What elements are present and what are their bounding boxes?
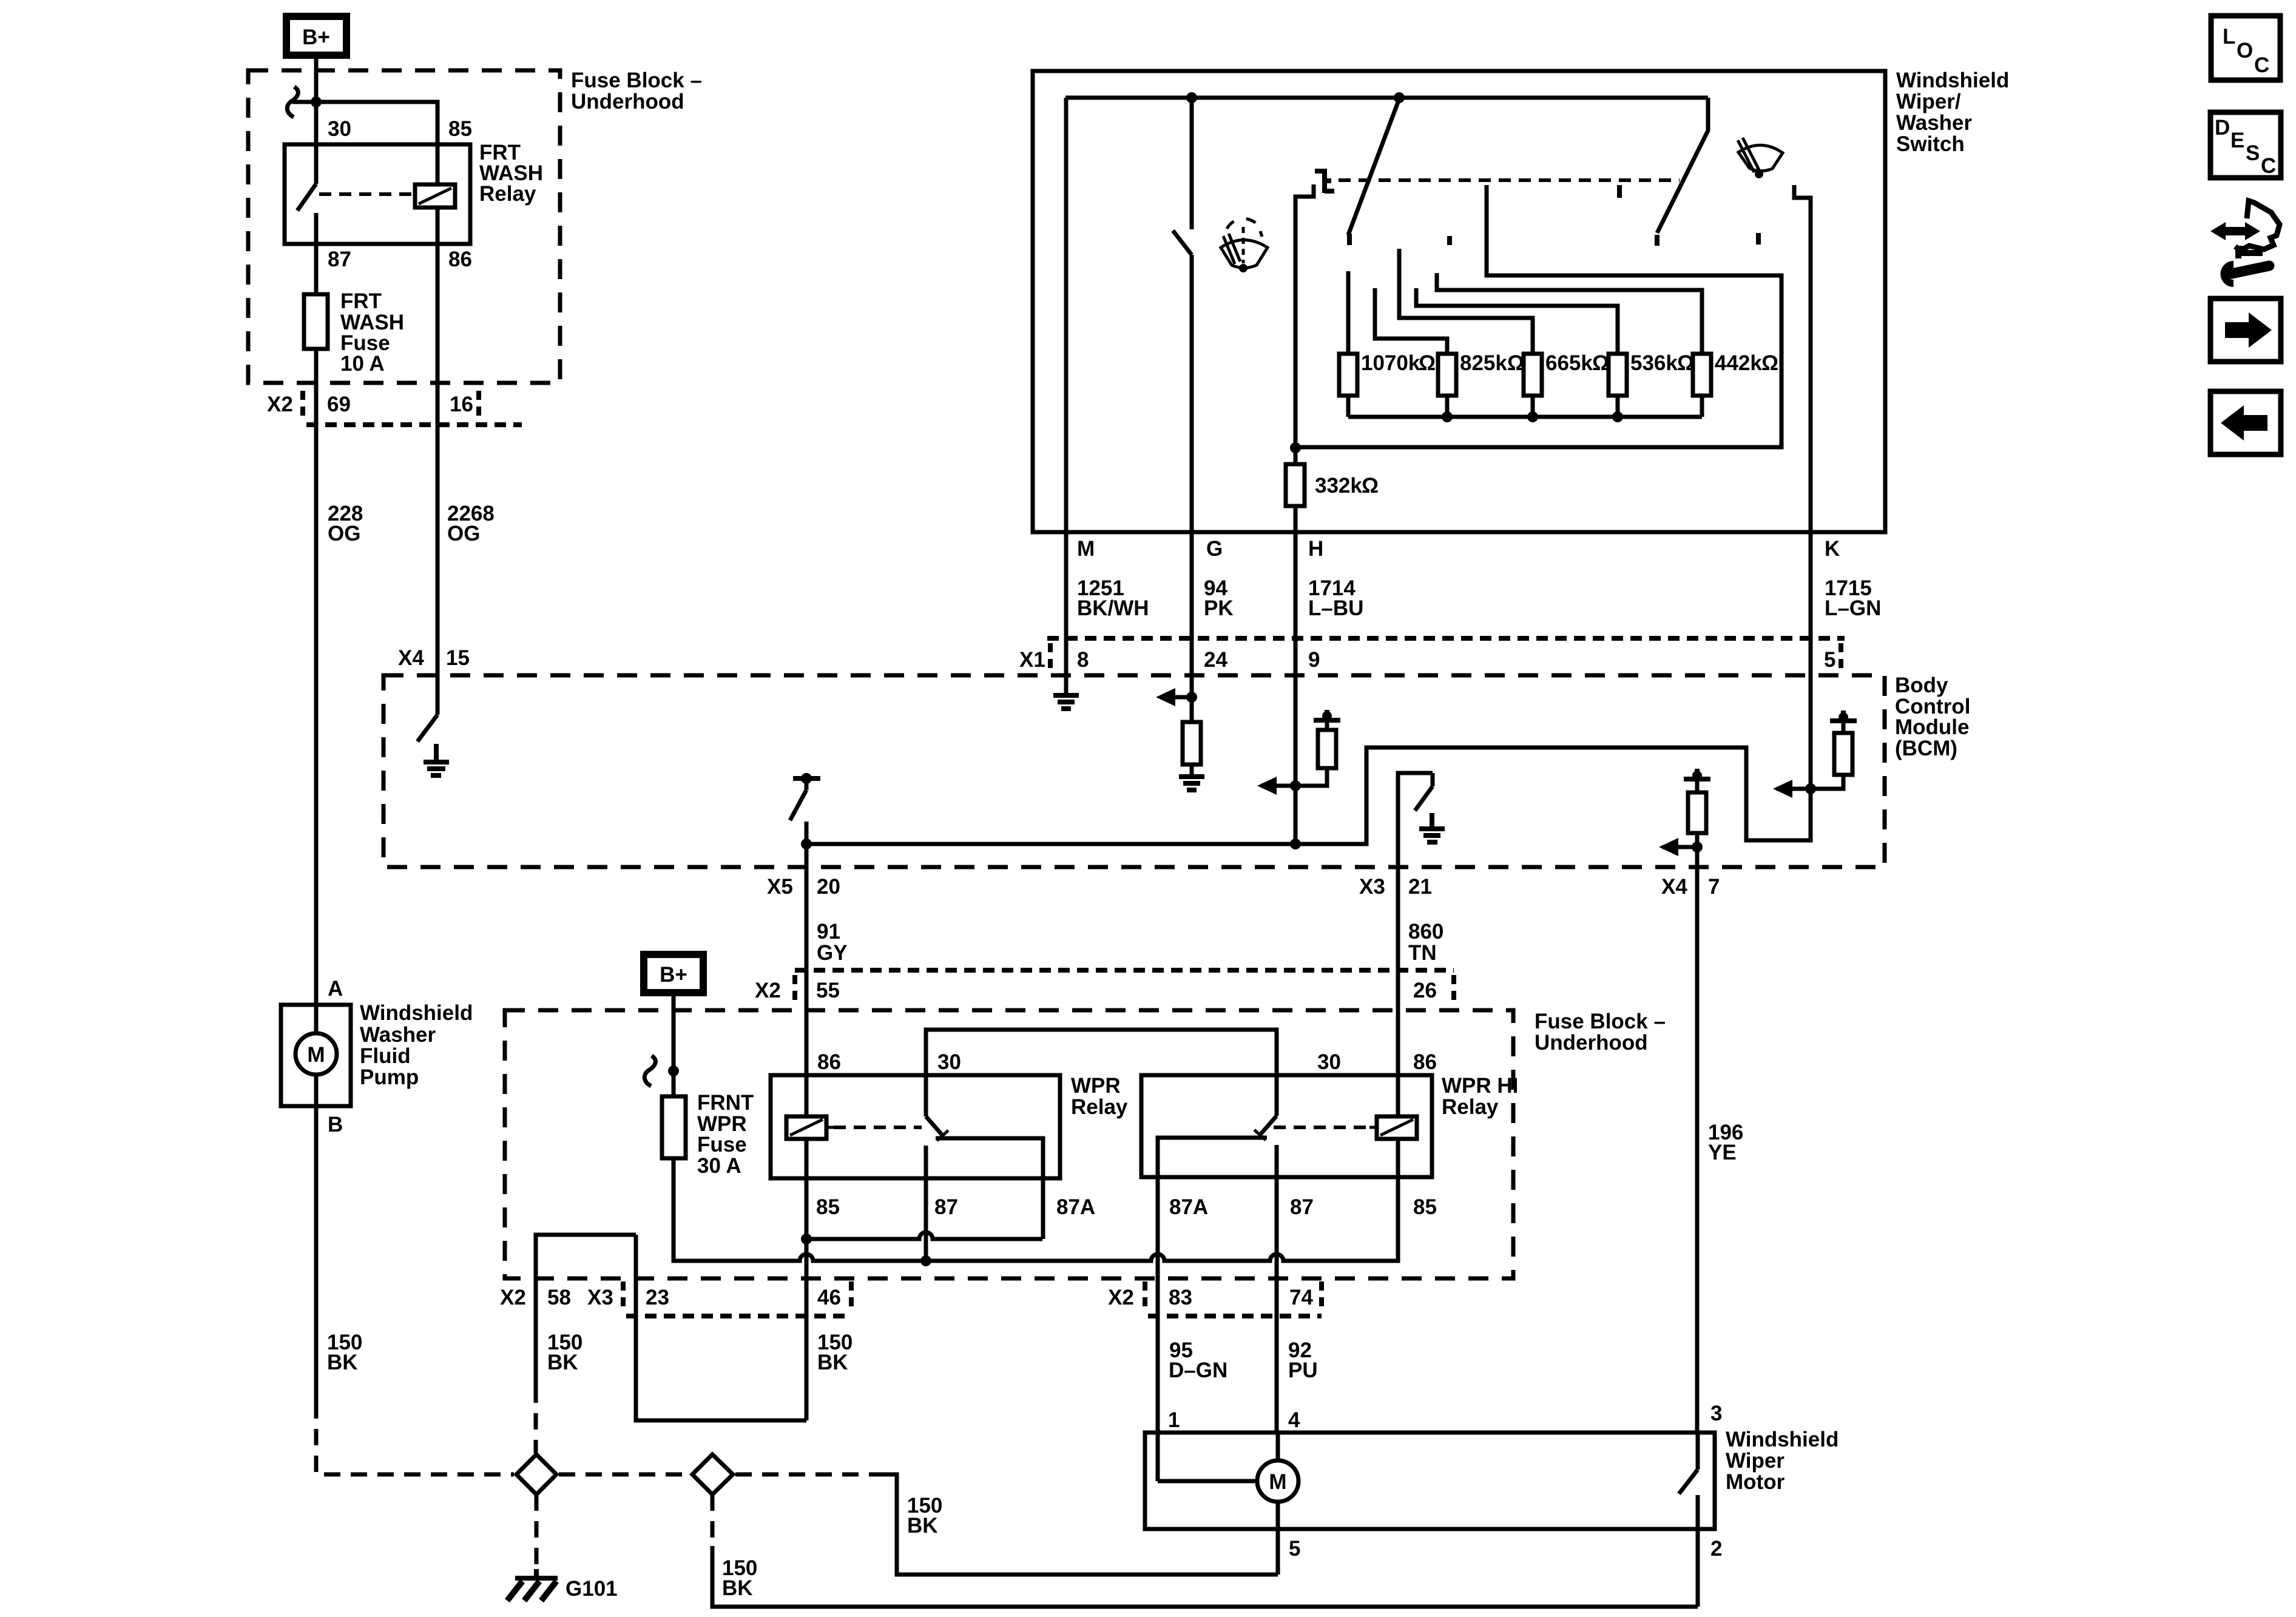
svg-text:H: H (1308, 537, 1323, 561)
node: B+ junction dot (311, 96, 322, 107)
dashed wire S1-S2 (559, 1473, 690, 1477)
svg-text:30: 30 (1317, 1050, 1341, 1074)
svg-text:X1: X1 (1019, 648, 1045, 672)
wire 58 dashed to splice S1 (534, 1386, 538, 1453)
forward arrow icon box (2210, 299, 2281, 362)
contact tick upper row (1617, 185, 1622, 198)
svg-text:OG: OG (447, 522, 480, 545)
svg-text:87A: 87A (1169, 1195, 1208, 1219)
svg-text:X2: X2 (755, 979, 781, 1002)
wiper INT icon (1221, 218, 1268, 272)
wire 92 PU: HI 87 to motor 4 (1275, 1145, 1279, 1433)
wire 91 GY from BCM X5/20 to relay 86 (805, 867, 809, 1118)
wire K with contact hook (1794, 185, 1811, 789)
87A to 85 link with hop (806, 1232, 1042, 1239)
wire H into BCM (continuous above) (1290, 839, 1301, 849)
svg-text:B+: B+ (302, 25, 330, 49)
svg-text:20: 20 (817, 875, 840, 899)
X4/7 input: pull-up resistor and sense arrow (1659, 769, 1710, 867)
ground at M input (1053, 695, 1079, 709)
DESC icon box (2210, 112, 2281, 178)
connector X2 strip (55/26) (795, 968, 1454, 973)
splice S2 diamond (692, 1454, 733, 1494)
svg-text:M: M (1077, 537, 1095, 561)
svg-text:2: 2 (1710, 1537, 1722, 1561)
svg-text:G: G (1206, 537, 1223, 561)
ladder wire to R2 (1375, 288, 1447, 354)
K input: pull-up resistor and sense arrow (1773, 711, 1857, 798)
svg-text:C: C (2261, 154, 2276, 178)
FRNT WPR Fuse 30A (662, 1096, 686, 1158)
svg-text:OG: OG (328, 522, 360, 545)
svg-text:D: D (2215, 116, 2230, 140)
resistor 332k (1294, 448, 1298, 464)
resistor 442k (1693, 354, 1711, 396)
svg-text:(BCM): (BCM) (1895, 737, 1957, 760)
svg-text:B: B (328, 1113, 343, 1136)
svg-text:74: 74 (1289, 1286, 1313, 1309)
resistor 536k (1609, 354, 1627, 396)
svg-text:X2: X2 (267, 393, 293, 416)
contact tick pos1 (1347, 234, 1352, 245)
wire 860 TN from BCM X3/21 to HI 86 (1396, 867, 1400, 1118)
B+ power symbol 2 (644, 954, 703, 993)
wire S2 down to motor pin 2 (711, 1494, 715, 1546)
Fuse Block - Underhood box 1 (248, 70, 560, 383)
wire M (1064, 98, 1069, 695)
resistor common bus (1346, 396, 1351, 417)
Windshield Wiper/Washer Switch box (1033, 71, 1885, 532)
svg-text:86: 86 (817, 1050, 841, 1074)
svg-text:Fuse Block –: Fuse Block – (571, 69, 702, 92)
svg-text:BK: BK (817, 1351, 848, 1374)
back arrow icon box (2210, 391, 2281, 454)
motor pin 5 (1276, 1502, 1280, 1575)
X5/20 output switch (790, 773, 820, 867)
FRT WASH Fuse 10A (304, 294, 328, 349)
svg-text:Switch: Switch (1896, 132, 1965, 156)
motor park switch (1696, 1433, 1700, 1470)
link relay 30 pins (926, 1030, 1277, 1075)
svg-text:536k: 536k (1630, 351, 1678, 375)
ladder wire to R5 (1437, 273, 1702, 354)
svg-text:X3: X3 (1359, 875, 1385, 899)
svg-text:Relay: Relay (479, 182, 536, 206)
svg-text:Ω: Ω (1419, 351, 1436, 375)
svg-text:55: 55 (816, 979, 840, 1002)
svg-text:Ω: Ω (1761, 351, 1778, 375)
svg-text:21: 21 (1408, 875, 1432, 899)
B+ bus to WPR HI relay 85 (with hops) (674, 1158, 1398, 1261)
ladder wire to R4 (1416, 288, 1618, 354)
svg-text:X4: X4 (398, 646, 424, 670)
svg-text:Fluid: Fluid (360, 1044, 411, 1068)
H input: pull-up resistor and sense arrow (1257, 710, 1340, 795)
svg-text:26: 26 (1413, 979, 1437, 1002)
svg-text:FRT: FRT (340, 289, 382, 313)
svg-text:5: 5 (1289, 1537, 1300, 1561)
svg-text:M: M (1269, 1470, 1286, 1494)
wire 85/46: coil to U-link (150 BK) (805, 1139, 809, 1420)
svg-text:M: M (307, 1043, 325, 1067)
svg-text:TN: TN (1408, 941, 1437, 965)
svg-text:X2: X2 (500, 1286, 526, 1309)
svg-text:Fuse: Fuse (697, 1133, 747, 1156)
U link wires 23-46 (636, 1235, 806, 1420)
svg-text:Windshield: Windshield (360, 1001, 473, 1025)
svg-text:8: 8 (1077, 648, 1089, 672)
svg-text:5: 5 (1824, 648, 1835, 672)
svg-text:Fuse Block –: Fuse Block – (1535, 1010, 1666, 1033)
resistor 665k (1524, 354, 1542, 396)
WPR relay pin 87 (924, 1146, 928, 1261)
svg-text:BK: BK (547, 1351, 578, 1374)
connector X1 strip (1047, 636, 1845, 641)
svg-text:86: 86 (448, 248, 472, 271)
svg-text:442k: 442k (1715, 351, 1762, 375)
detent glyph (1315, 169, 1334, 193)
svg-text:Wiper/: Wiper/ (1896, 90, 1961, 113)
svg-text:BK: BK (327, 1351, 358, 1374)
svg-text:Windshield: Windshield (1726, 1428, 1838, 1451)
svg-text:85: 85 (1413, 1195, 1437, 1219)
wash position wire to H (1295, 185, 1781, 447)
svg-text:L: L (2223, 25, 2235, 49)
svg-text:BK: BK (722, 1576, 753, 1600)
ladder wire to R3 (1399, 249, 1533, 354)
wire 86 down to BCM X4/15 (436, 208, 440, 715)
relay mech dashed link (319, 192, 414, 196)
svg-text:87: 87 (328, 248, 351, 271)
washer switch blade (G) (1190, 98, 1194, 229)
svg-text:A: A (328, 977, 343, 1001)
svg-text:30: 30 (937, 1050, 961, 1074)
diagnostic icon (arrows + wrench) (2210, 201, 2280, 283)
dashed wire S1 to G101 (535, 1494, 539, 1574)
contact tick pos2 (1447, 236, 1452, 245)
svg-text:860: 860 (1408, 920, 1443, 944)
Windshield Wiper Motor box (1145, 1433, 1715, 1529)
svg-text:BK: BK (907, 1514, 938, 1538)
ground G101 (507, 1569, 618, 1601)
svg-text:87: 87 (1290, 1195, 1314, 1219)
switch common rail (1065, 96, 1708, 100)
svg-text:X3: X3 (587, 1286, 613, 1309)
svg-text:4: 4 (1288, 1408, 1300, 1432)
splice S1 diamond (516, 1454, 556, 1494)
Fuse Block - Underhood box 2 (505, 1010, 1513, 1278)
svg-text:Windshield: Windshield (1896, 69, 2009, 92)
svg-text:87: 87 (934, 1195, 958, 1219)
svg-text:X5: X5 (767, 875, 793, 899)
WPR HI coil (1377, 1116, 1417, 1139)
relay coil (85-86) (415, 184, 455, 208)
wire 95 D-GN: HI 87A to motor 1 (1156, 1177, 1160, 1433)
svg-text:GY: GY (817, 941, 848, 965)
svg-text:Underhood: Underhood (1535, 1031, 1648, 1055)
main wiper blade (1348, 99, 1399, 235)
svg-text:332k: 332k (1315, 474, 1362, 498)
svg-text:10 A: 10 A (340, 352, 385, 376)
FRT WASH Relay U1 box (285, 144, 470, 244)
node: H junction dot (1290, 442, 1301, 453)
svg-text:Ω: Ω (1362, 474, 1379, 498)
wire K into BCM (continuous above) (1805, 783, 1816, 794)
wire H with park detent anchor (1295, 184, 1314, 448)
LOC icon box (2211, 16, 2280, 80)
WPR HI Relay box (1141, 1075, 1432, 1177)
svg-text:PK: PK (1204, 596, 1234, 620)
svg-text:665k: 665k (1545, 351, 1593, 375)
BCM internal bus X5/20 to K node (806, 748, 1811, 844)
WPR relay mech link (834, 1126, 922, 1129)
svg-text:X4: X4 (1661, 875, 1687, 899)
svg-text:46: 46 (817, 1286, 841, 1309)
B+ power symbol (top left) (286, 16, 346, 55)
motor pin 2 (1696, 1529, 1700, 1607)
wire S2 right to motor pin 5 (735, 1473, 881, 1477)
resistor 825k (1438, 354, 1456, 396)
svg-text:C: C (2254, 53, 2269, 77)
wire pump B down (314, 1106, 319, 1402)
WPR relay switch blade 30-87A (924, 1075, 928, 1116)
svg-text:Relay: Relay (1442, 1095, 1499, 1119)
svg-text:58: 58 (547, 1286, 571, 1309)
svg-text:Wiper: Wiper (1726, 1449, 1784, 1473)
svg-text:L–GN: L–GN (1825, 596, 1881, 620)
svg-text:O: O (2237, 39, 2253, 62)
motor armature M (1156, 1433, 1160, 1481)
wash switch blade (right) (1657, 98, 1708, 233)
splice hook symbol at B+ feed (287, 87, 298, 117)
svg-text:Washer: Washer (1896, 111, 1973, 135)
wire B+ to fuse (672, 993, 676, 1096)
svg-text:YE: YE (1708, 1141, 1737, 1164)
WPR HI switch blade 30-87A (1275, 1075, 1279, 1116)
svg-text:Pump: Pump (360, 1065, 419, 1089)
WPR Relay box (771, 1075, 1060, 1178)
WPR HI mech link (1274, 1126, 1369, 1129)
svg-text:G101: G101 (566, 1577, 618, 1601)
svg-text:15: 15 (446, 646, 470, 670)
svg-text:K: K (1825, 537, 1840, 561)
svg-text:B+: B+ (660, 963, 687, 987)
svg-text:30: 30 (328, 117, 351, 141)
wiper WASH icon (1738, 138, 1783, 178)
svg-text:D–GN: D–GN (1169, 1359, 1227, 1382)
svg-text:E: E (2230, 129, 2244, 152)
svg-text:Relay: Relay (1071, 1095, 1128, 1119)
node: rail dot main blade (1394, 92, 1405, 103)
contact tick pos3 (1655, 235, 1660, 246)
wire junction to pin 85 (292, 102, 437, 146)
svg-text:Underhood: Underhood (571, 90, 684, 113)
node: rail dot G (1186, 92, 1197, 103)
resistor 1070k (1339, 354, 1357, 396)
svg-text:PU: PU (1288, 1359, 1318, 1382)
svg-text:FRNT: FRNT (697, 1091, 754, 1115)
svg-text:3: 3 (1710, 1402, 1722, 1425)
svg-text:Washer: Washer (360, 1023, 436, 1047)
svg-text:83: 83 (1169, 1286, 1192, 1309)
svg-text:1070k: 1070k (1361, 351, 1420, 375)
connector X2 strip (69/16) (300, 391, 305, 421)
contact tick pos4 (1756, 233, 1761, 245)
svg-text:7: 7 (1708, 875, 1720, 899)
svg-text:30 A: 30 A (697, 1154, 741, 1178)
ladder wire to R1 (1346, 271, 1351, 354)
svg-text:Module: Module (1895, 715, 1969, 739)
HI coil to 85 (1396, 1139, 1400, 1177)
svg-text:86: 86 (1413, 1050, 1437, 1074)
svg-text:87A: 87A (1056, 1195, 1095, 1219)
svg-text:24: 24 (1204, 648, 1227, 672)
wiper park switch to ground (X4/15) (417, 715, 437, 741)
wire 196 YE from BCM X4/7 to motor 3 (1695, 867, 1700, 1433)
Body Control Module (BCM) box (383, 675, 1885, 867)
splice hook at B+ 2 (644, 1056, 655, 1086)
WPR relay coil (786, 1116, 826, 1139)
svg-text:WPR HI: WPR HI (1442, 1074, 1518, 1098)
inverted-U link wires 58-23 (536, 1235, 636, 1386)
svg-text:91: 91 (817, 920, 840, 944)
X3/21 output switch to ground (1398, 773, 1445, 867)
wire 87A WPR below box (1041, 1178, 1045, 1239)
svg-text:L–BU: L–BU (1308, 596, 1363, 620)
mech dashed line wiper switch (1339, 178, 1680, 182)
svg-text:23: 23 (646, 1286, 669, 1309)
svg-text:85: 85 (816, 1195, 840, 1219)
svg-text:BK/WH: BK/WH (1077, 596, 1149, 620)
svg-text:9: 9 (1308, 648, 1320, 672)
svg-text:69: 69 (327, 393, 351, 416)
relay switch blade (30-87) (314, 146, 319, 184)
svg-text:825k: 825k (1460, 351, 1507, 375)
dashed 150 BK to splice (316, 1402, 514, 1474)
svg-text:85: 85 (448, 117, 472, 141)
svg-text:Body: Body (1895, 673, 1948, 697)
svg-text:16: 16 (450, 393, 473, 416)
svg-text:X2: X2 (1108, 1286, 1134, 1309)
wire 87/fuse down to pump (314, 349, 319, 1005)
wire B+ to relay pin 30 (314, 59, 319, 146)
svg-text:S: S (2246, 141, 2260, 165)
svg-text:Motor: Motor (1726, 1470, 1785, 1494)
svg-text:WPR: WPR (1071, 1074, 1121, 1098)
G input: sense arrow, resistor, ground (1186, 692, 1197, 703)
svg-text:1: 1 (1168, 1408, 1180, 1432)
